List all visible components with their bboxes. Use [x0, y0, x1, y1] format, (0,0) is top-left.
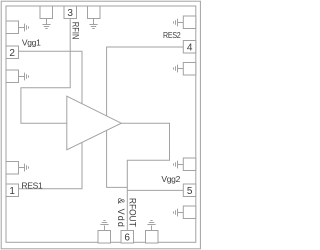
svg-text:1: 1 [9, 186, 15, 197]
svg-text:5: 5 [187, 186, 193, 197]
pin box 1 [6, 184, 19, 197]
ground right pad 4 [174, 209, 184, 217]
svg-text:2: 2 [9, 48, 15, 59]
pin box 4 [183, 41, 196, 54]
svg-text:RES2: RES2 [163, 30, 181, 40]
op-amp U1 [67, 96, 122, 150]
ground bottom pad 2 [147, 221, 155, 231]
wire Vgg1 bias [19, 51, 83, 103]
wire RES2 [107, 47, 184, 116]
pad bottom 2 [146, 231, 159, 244]
chip outline [6, 6, 196, 242]
pin box 5 [183, 184, 196, 197]
pad left 1 [6, 21, 19, 34]
pad top 1 [40, 6, 53, 19]
ground left pad 1 [19, 24, 29, 32]
ground top pad 1 [42, 19, 50, 29]
pad left 2 [6, 70, 19, 83]
ground right pad 2 [174, 65, 184, 73]
pad right 1 [183, 16, 196, 29]
wire RFIN path [21, 19, 70, 124]
pad right 2 [183, 63, 196, 76]
wire RES2 lower [107, 130, 128, 187]
ground top pad 2 [89, 19, 97, 29]
svg-text:& Vdd: & Vdd [116, 198, 126, 227]
wire Vgg2 [127, 189, 183, 191]
pin box 6 [121, 231, 134, 244]
svg-text:Vgg1: Vgg1 [22, 37, 41, 47]
ground right pad 1 [174, 19, 184, 27]
svg-text:3: 3 [67, 8, 73, 19]
ground bottom pad 1 [100, 221, 108, 231]
svg-text:RFOUT: RFOUT [127, 198, 137, 227]
pad bottom 1 [98, 231, 111, 244]
svg-text:4: 4 [187, 42, 193, 53]
wire gate bias lower [19, 142, 83, 188]
pad right 4 [183, 206, 196, 219]
svg-text:Vgg2: Vgg2 [161, 174, 180, 184]
wire RF output [121, 123, 170, 230]
ground left pad 2 [19, 73, 29, 81]
pin box 3 [64, 6, 77, 19]
ground left pad 3 [19, 164, 29, 172]
pad left 3 [6, 162, 19, 175]
svg-text:6: 6 [124, 232, 130, 243]
ground right pad 3 [174, 161, 184, 169]
pin box 2 [6, 46, 19, 59]
pad top 2 [88, 6, 101, 19]
svg-text:RFIN: RFIN [71, 22, 81, 40]
pad right 3 [183, 158, 196, 171]
svg-text:RES1: RES1 [21, 180, 43, 190]
